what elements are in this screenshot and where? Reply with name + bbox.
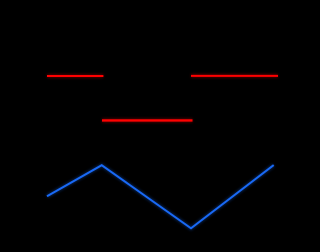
blue zigzag polyline (triangle wave) [47, 165, 274, 228]
red segment right (derivative high level) [191, 75, 278, 77]
red segment middle (derivative low level) [102, 119, 193, 121]
glow halos under lines [47, 76, 278, 228]
red segment left (derivative high level) [47, 75, 103, 77]
